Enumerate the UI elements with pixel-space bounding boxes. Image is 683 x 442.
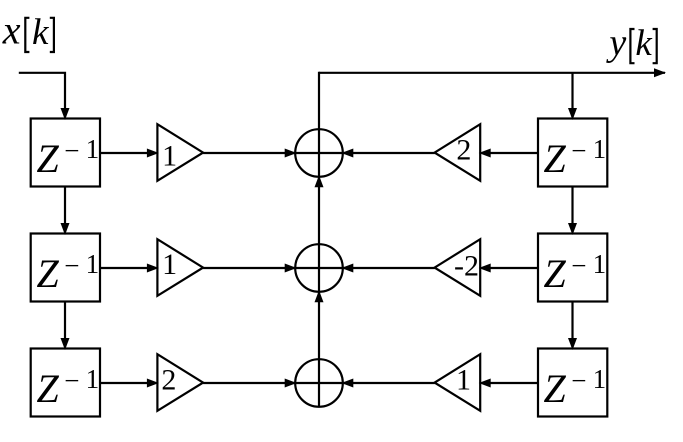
gain G1 triangle [157, 124, 203, 181]
gain G6 triangle [435, 354, 481, 411]
wire middle vertical through adders [318, 72, 320, 407]
arrowhead into S1 bottom [315, 175, 324, 187]
wire row3 Z6 to gain G6 [483, 382, 538, 384]
wire row2 Z2 to gain G2 [100, 267, 156, 269]
arrowhead into Z5 top [568, 223, 577, 235]
gain G3 triangle [157, 354, 203, 411]
wire row1 Z4 to gain G4 [483, 152, 538, 154]
svg-text:−: − [571, 136, 586, 166]
delay Z5 box [538, 234, 607, 302]
svg-text:1: 1 [162, 139, 177, 172]
wire row1 G4 to adder S1 [343, 152, 435, 154]
arrowhead into G3 left [147, 379, 159, 388]
wire row1 G1 to adder S1 [203, 152, 295, 154]
wire left chain Z1 to Z2 [64, 187, 66, 233]
wire row3 Z3 to gain G3 [100, 382, 156, 384]
adder S3 circle [295, 359, 343, 407]
arrowhead into G6 right [479, 379, 491, 388]
svg-text:−: − [571, 366, 586, 396]
svg-text:−: − [64, 251, 79, 281]
svg-text:1: 1 [593, 249, 607, 279]
wire input horizontal x[k] [19, 73, 65, 117]
svg-text:1: 1 [86, 364, 100, 394]
delay Z6 box [538, 349, 607, 417]
svg-text:Z: Z [544, 366, 567, 411]
arrowhead into G1 left [147, 149, 159, 158]
gain G4 triangle [435, 124, 481, 181]
arrowhead into S3 right [341, 379, 353, 388]
wire row3 G3 to adder S3 [203, 382, 295, 384]
wire branch down to right delay chain [571, 73, 573, 117]
svg-text:1: 1 [86, 134, 100, 164]
wire row2 G5 to adder S2 [343, 267, 435, 269]
arrowhead into Z3 top [61, 338, 70, 350]
delay Z4 box [538, 119, 607, 187]
arrowhead into Z1 top [61, 108, 70, 120]
adder S1 circle [295, 129, 343, 177]
svg-text:x: x [2, 8, 21, 53]
svg-text:−: − [571, 251, 586, 281]
arrowhead into S3 left [285, 379, 297, 388]
delay Z2 box [31, 234, 100, 302]
arrowhead into G2 left [147, 264, 159, 273]
svg-text:1: 1 [162, 248, 177, 281]
arrowhead into S2 bottom [315, 290, 324, 302]
svg-text:−: − [64, 366, 79, 396]
arrowhead into Z6 top [568, 338, 577, 350]
svg-text:1: 1 [86, 249, 100, 279]
arrowhead into G4 right [479, 149, 491, 158]
wire right chain Z5 to Z6 [571, 302, 573, 348]
svg-text:y: y [605, 22, 626, 64]
svg-text:2: 2 [161, 364, 176, 397]
svg-text:k: k [32, 12, 49, 53]
delay Z1 box [31, 119, 100, 187]
delay Z3 box [31, 349, 100, 417]
wire row2 S2 diameter [295, 267, 343, 269]
arrowhead into G5 right [479, 264, 491, 273]
svg-text:-2: -2 [454, 249, 479, 282]
adder S2 circle [295, 244, 343, 292]
label x[k] [2, 8, 54, 54]
wire row1 S1 diameter [295, 152, 343, 154]
svg-text:1: 1 [593, 364, 607, 394]
svg-text:1: 1 [456, 364, 471, 397]
svg-text:Z: Z [544, 251, 567, 296]
svg-text:−: − [64, 136, 79, 166]
svg-text:Z: Z [544, 136, 567, 181]
wire row3 S3 diameter [295, 382, 343, 384]
arrowhead into Z2 top [61, 223, 70, 235]
arrowhead into S1 left [285, 149, 297, 158]
wire output horizontal to y[k] [319, 72, 665, 74]
label y[k] [605, 22, 656, 64]
svg-text:Z: Z [37, 136, 60, 181]
svg-text:1: 1 [593, 134, 607, 164]
wire row3 G6 to adder S3 [343, 382, 435, 384]
arrowhead into S1 right [341, 149, 353, 158]
svg-text:Z: Z [37, 251, 60, 296]
svg-text:k: k [635, 23, 652, 64]
wire left chain Z2 to Z3 [64, 302, 66, 348]
arrowhead into S2 right [341, 264, 353, 273]
gain G5 triangle [435, 239, 481, 296]
gain G2 triangle [157, 239, 203, 296]
arrowhead output y[k] [654, 68, 666, 77]
arrowhead into S2 left [285, 264, 297, 273]
svg-text:Z: Z [37, 366, 60, 411]
arrowhead into Z4 top [568, 108, 577, 120]
wire row2 G2 to adder S2 [203, 267, 295, 269]
wire row1 Z1 to gain G1 [100, 152, 156, 154]
wire row2 Z5 to gain G5 [483, 267, 538, 269]
wire right chain Z4 to Z5 [571, 187, 573, 233]
svg-text:2: 2 [456, 134, 471, 167]
